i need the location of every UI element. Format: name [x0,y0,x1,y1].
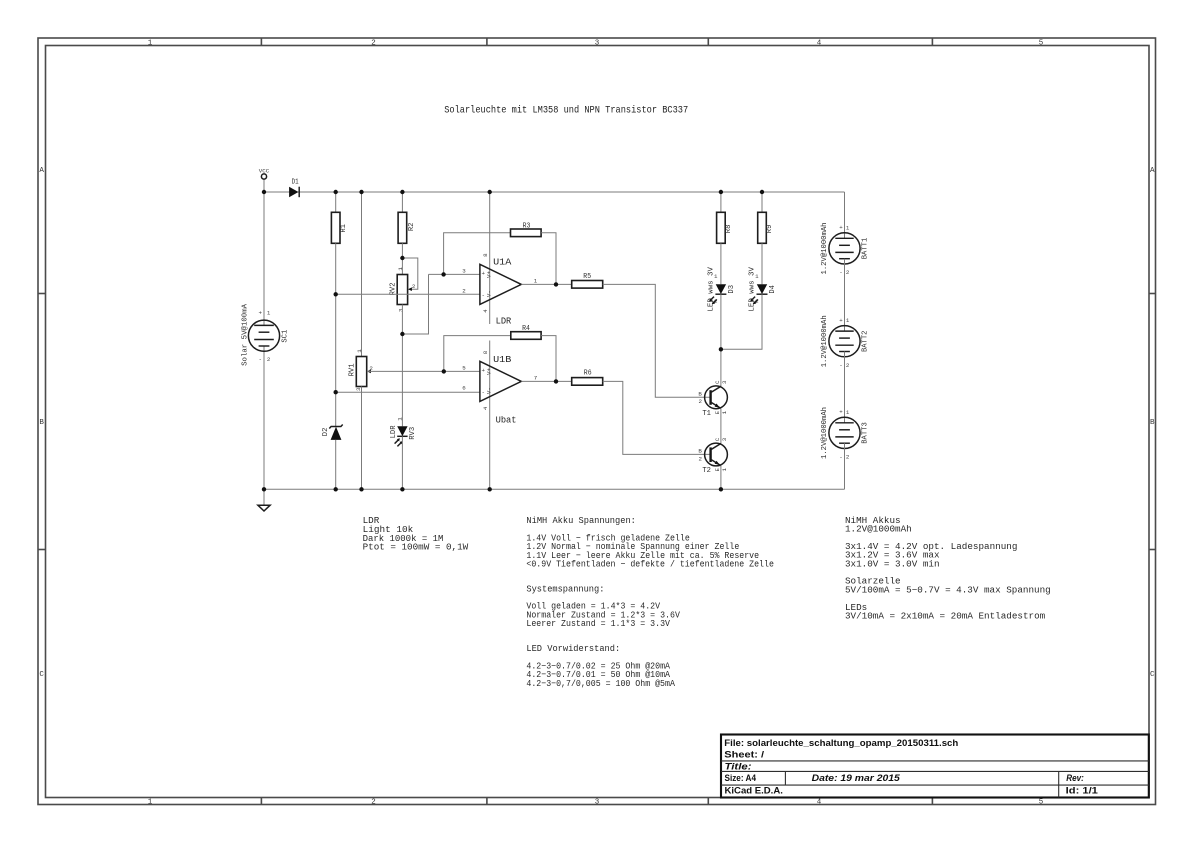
diode D1 [289,179,299,198]
svg-text:2: 2 [412,283,416,290]
title block border [721,735,1149,798]
svg-text:3x1.0V = 3.0V min: 3x1.0V = 3.0V min [845,558,940,569]
wire R2 column top stub [401,192,403,212]
wire U1A output [521,283,571,285]
resistor R2 [398,212,416,243]
svg-text:8: 8 [482,350,489,354]
svg-text:2: 2 [846,454,850,461]
wire U1A pin2 from node B [336,293,480,295]
annotation text Systemspannung block [526,583,680,629]
svg-text:1: 1 [846,409,850,416]
svg-text:5: 5 [462,365,466,372]
svg-text:B: B [698,448,702,455]
svg-text:-: - [839,453,842,460]
photoresistor RV3 [390,417,417,447]
svg-text:B: B [698,390,702,397]
wire U1B output [521,380,571,382]
wire top power rail [264,191,845,193]
svg-text:-: - [259,356,262,363]
wire D4 branch to T1 collector node [721,294,762,349]
wire T2 emitter to bus [720,466,722,490]
battery BATT3 [821,407,869,461]
wire BATT1 to BATT2 [844,259,846,331]
svg-text:LED wws 3V: LED wws 3V [748,267,756,312]
wire left rail upper [263,179,265,325]
frame row letters left [39,167,44,679]
svg-text:D3: D3 [728,285,736,294]
svg-text:1: 1 [846,317,850,324]
svg-text:3: 3 [721,437,728,441]
svg-text:BATT2: BATT2 [861,331,869,353]
svg-text:A: A [39,167,44,175]
wire left rail lower [263,346,265,489]
svg-text:R6: R6 [584,370,592,378]
svg-text:4: 4 [817,40,822,48]
svg-text:+: + [839,224,843,231]
svg-text:RV2: RV2 [389,282,397,295]
svg-text:3: 3 [355,387,362,391]
svg-text:7: 7 [534,374,538,381]
svg-text:5: 5 [1039,40,1044,48]
annotation text LEDs block [845,602,1046,622]
wire R6 to T2 base [603,381,711,454]
svg-text:C: C [714,437,721,441]
svg-text:Systemspannung:: Systemspannung: [526,583,604,594]
junction dots [262,190,764,492]
svg-text:E: E [714,410,721,414]
svg-text:T1: T1 [702,410,711,418]
svg-text:Solarleuchte mit LM358 und NPN: Solarleuchte mit LM358 und NPN Transisto… [444,105,688,117]
svg-text:U1B: U1B [493,355,512,365]
wire R3 left feedback [444,233,511,275]
svg-text:3: 3 [397,308,404,312]
wire R5 to T1 base [603,284,711,397]
svg-text:-: - [839,269,842,276]
svg-text:U1A: U1A [493,258,512,268]
svg-text:LDR: LDR [496,315,512,326]
svg-text:Id: 1/1: Id: 1/1 [1066,786,1098,796]
wire U1A power pins column [489,192,491,324]
svg-text:KiCad E.D.A.: KiCad E.D.A. [725,786,783,796]
svg-text:RV1: RV1 [349,363,357,376]
wire U1A pin3 route down to RV2/RV3 node [402,274,428,334]
wire bottom ground bus [264,488,845,490]
svg-text:C: C [714,380,721,384]
zener diode D2 [322,425,343,440]
LED D3 [707,267,735,312]
wire R9 to D4 [761,243,763,284]
svg-text:BATT3: BATT3 [861,422,869,444]
svg-text:V+: V+ [486,271,493,278]
resistor R8 [717,212,734,243]
svg-text:BATT1: BATT1 [861,237,869,259]
wire R2 to RV2 [401,243,403,274]
svg-text:1: 1 [148,799,153,807]
svg-text:1: 1 [267,310,271,317]
frame row ticks left [38,294,46,550]
svg-text:1: 1 [846,224,850,231]
svg-text:LED wws 3V: LED wws 3V [707,267,715,312]
wire T1 emitter to T2 collector [720,408,722,443]
svg-text:4: 4 [817,799,822,807]
svg-text:5V/100mA = 5−0.7V = 4.3V max S: 5V/100mA = 5−0.7V = 4.3V max Spannung [845,584,1051,595]
wire R8 top stub [720,192,722,212]
svg-text:D1: D1 [292,179,299,187]
op-amp U1A [462,253,538,313]
svg-text:R5: R5 [583,273,591,281]
annotation text Solarzelle block [845,576,1051,596]
potentiometer RV2 [389,267,416,312]
svg-text:R9: R9 [766,225,774,234]
annotation text NiMH Akku Spannungen block [526,515,774,570]
svg-text:Leerer Zustand = 1.1*3 = 3.3V: Leerer Zustand = 1.1*3 = 3.3V [526,618,670,629]
op-amp U1B [462,350,538,410]
svg-text:E: E [714,468,721,472]
svg-text:4: 4 [482,406,489,410]
svg-text:1: 1 [721,410,728,414]
svg-text:+: + [839,317,843,324]
resistor R5 [572,273,603,288]
svg-text:Solar 5V@100mA: Solar 5V@100mA [242,303,250,365]
LED D4 [748,267,777,312]
ground symbol [258,489,270,511]
svg-text:R2: R2 [408,222,416,231]
svg-text:V-: V- [486,290,493,297]
wire RV1 column from rail [361,192,363,357]
svg-text:4.2−3−0,7/0,005 = 100 Ohm @5mA: 4.2−3−0,7/0,005 = 100 Ohm @5mA [526,678,675,689]
svg-text:Title:: Title: [725,761,752,771]
wire R1 column middle [335,243,337,426]
wire RV3 to bus [401,436,403,489]
battery BATT1 [821,223,869,277]
svg-text:8: 8 [482,253,489,257]
svg-text:+: + [839,409,843,416]
title block column dividers [785,771,1058,797]
svg-text:2: 2 [371,40,376,48]
wire R4 left feedback [444,336,511,372]
svg-text:VCC: VCC [259,168,270,175]
wire RV2 pin3 down [401,305,403,427]
frame column ticks bottom [261,798,932,805]
wire RV1 pin3 to bus [361,387,363,490]
svg-text:C: C [1150,671,1155,679]
svg-text:V-: V- [486,387,493,394]
svg-text:RV3: RV3 [409,426,417,439]
transistor T1 [698,380,728,418]
svg-text:<0.9V Tiefentladen − defekte /: <0.9V Tiefentladen − defekte / tiefentla… [526,559,774,570]
resistor R3 [511,222,542,236]
svg-text:3: 3 [462,268,466,275]
svg-text:LDR: LDR [390,425,398,438]
svg-text:3: 3 [721,380,728,384]
svg-text:SC1: SC1 [282,329,290,342]
wire D3 to T1 collector [720,294,722,386]
svg-text:T2: T2 [702,467,711,475]
svg-text:3: 3 [595,799,600,807]
wire U1B power pins column [489,341,491,490]
svg-text:Date: 19 mar 2015: Date: 19 mar 2015 [812,773,901,783]
svg-text:2: 2 [267,356,271,363]
transistor T2 [698,437,728,475]
svg-text:R1: R1 [340,224,348,233]
svg-text:2: 2 [846,362,850,369]
annotation text LDR block [363,515,469,552]
frame row letters right [1150,167,1155,679]
svg-text:R4: R4 [522,325,530,333]
svg-text:1: 1 [397,267,404,271]
wire U1B pin6 from node B [336,391,480,393]
svg-text:D2: D2 [322,428,330,437]
frame row ticks right [1149,294,1156,550]
resistor R9 [758,212,775,243]
svg-text:Ubat: Ubat [496,415,517,426]
wire U1A pin3 [429,273,480,275]
svg-text:3: 3 [595,40,600,48]
wire D2 to bus [335,440,337,489]
svg-text:3V/10mA = 2x10mA = 20mA Entlad: 3V/10mA = 2x10mA = 20mA Entladestrom [845,611,1046,622]
svg-text:1: 1 [148,40,153,48]
svg-text:1.2V@1000mAh: 1.2V@1000mAh [821,315,829,367]
frame column numbers bottom [148,799,1044,807]
svg-text:2: 2 [846,269,850,276]
svg-text:B: B [1150,419,1155,427]
wire R9 top stub [761,192,763,212]
wire BATT3 to bus [844,443,846,489]
wire RV1 wiper to U1B pin5 [367,370,480,372]
svg-text:1.2V@1000mAh: 1.2V@1000mAh [821,223,829,275]
svg-text:-: - [839,362,842,369]
svg-text:Rev:: Rev: [1066,773,1084,783]
resistor R4 [511,325,541,339]
svg-text:5: 5 [1039,799,1044,807]
svg-text:LED Vorwiderstand:: LED Vorwiderstand: [526,643,620,654]
svg-text:2: 2 [462,288,466,295]
wire R1 column top stub [335,192,337,212]
potentiometer RV1 [349,349,374,391]
svg-text:Size: A4: Size: A4 [725,773,757,783]
battery BATT2 [821,315,869,369]
svg-text:1: 1 [356,349,363,353]
svg-text:1: 1 [721,468,728,472]
svg-text:Sheet: /: Sheet: / [724,750,764,760]
svg-text:2: 2 [699,455,703,462]
svg-text:1: 1 [397,417,404,421]
wire R8 to D3 [720,243,722,284]
svg-text:File: solarleuchte_schaltung_o: File: solarleuchte_schaltung_opamp_20150… [724,738,958,748]
title block row lines [721,761,1149,785]
svg-text:NiMH Akku Spannungen:: NiMH Akku Spannungen: [526,515,636,526]
svg-text:C: C [39,671,44,679]
svg-text:6: 6 [462,385,466,392]
resistor R6 [572,370,603,386]
power symbol VCC [259,168,270,179]
annotation text LED Vorwiderstand block [526,643,675,689]
solar cell SC1 [242,303,290,365]
svg-text:D4: D4 [769,285,777,294]
wire battery column top [844,192,846,238]
wire R4 right to output [541,336,556,382]
svg-text:-: - [481,292,484,299]
svg-text:B: B [39,419,44,427]
svg-text:1: 1 [534,277,538,284]
svg-text:2: 2 [371,799,376,807]
svg-text:V+: V+ [486,368,493,375]
svg-text:-: - [481,389,484,396]
annotation text NiMH Akkus block [845,515,1017,570]
svg-text:+: + [259,310,263,317]
svg-text:R3: R3 [523,222,531,230]
svg-text:Ptot = 100mW = 0,1W: Ptot = 100mW = 0,1W [363,542,469,553]
svg-text:2: 2 [699,398,703,405]
svg-text:4: 4 [482,309,489,313]
frame column numbers top [148,40,1044,48]
wire R3 right to output [541,233,556,285]
svg-text:1.2V@1000mAh: 1.2V@1000mAh [845,524,912,535]
svg-text:1.2V@1000mAh: 1.2V@1000mAh [821,407,829,459]
wire RV2 wiper loop [402,258,417,289]
resistor R1 [331,212,348,243]
svg-text:A: A [1150,167,1155,175]
frame column ticks top [261,38,932,46]
wire BATT2 to BATT3 [844,352,846,423]
svg-text:R8: R8 [725,225,733,234]
